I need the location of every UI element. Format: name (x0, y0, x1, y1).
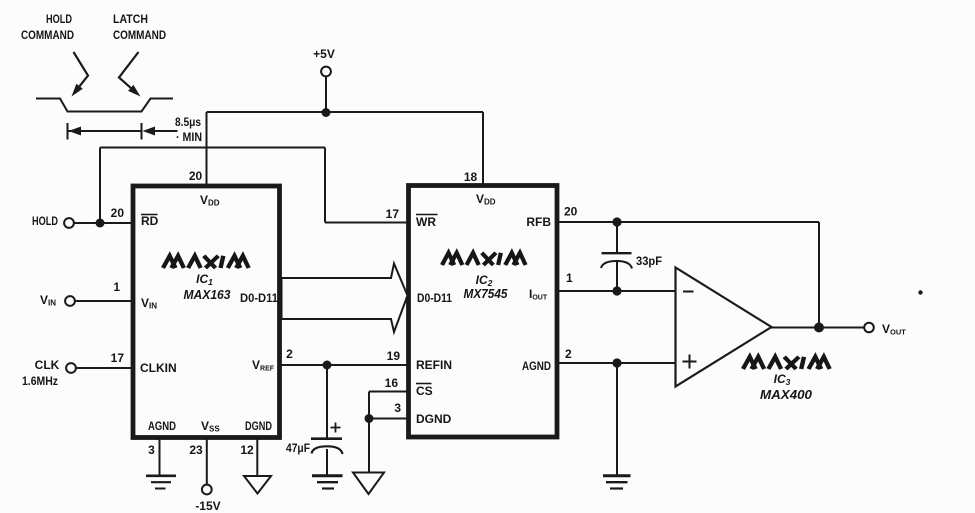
svg-text:3: 3 (148, 443, 155, 457)
svg-text:LATCH: LATCH (113, 12, 148, 26)
wire 33pF top stem (616, 222, 618, 253)
wire IC2 VDD drop (482, 112, 484, 185)
MAXIM logo IC1 (163, 256, 249, 268)
capacitor C1 47uF plus sign (331, 423, 341, 433)
capacitor C2 33pF top plate (602, 252, 632, 254)
svg-text:IC3: IC3 (774, 372, 791, 387)
svg-text:8.5μs: 8.5μs (175, 115, 201, 129)
svg-text:CLK: CLK (35, 358, 60, 372)
svg-text:19: 19 (387, 349, 401, 363)
pin stub IC1 VSS (206, 439, 208, 484)
svg-text:20: 20 (111, 206, 125, 220)
junction VREF node (323, 361, 332, 370)
wire CS-DGND vertical (368, 392, 370, 419)
svg-text:RFB: RFB (526, 215, 551, 229)
svg-text:AGND: AGND (148, 419, 176, 433)
junction HOLD node (96, 219, 105, 228)
terminal HOLD (64, 218, 74, 228)
svg-text:MAX163: MAX163 (184, 288, 231, 302)
junction RFB node (612, 217, 621, 226)
ground 47uF (312, 476, 343, 489)
svg-text:AGND: AGND (522, 359, 551, 373)
capacitor C1 47uF curved plate (312, 446, 343, 454)
svg-text:CLKIN: CLKIN (140, 361, 177, 375)
svg-text:· MIN: · MIN (176, 130, 202, 144)
IC1 MAX163 box (133, 186, 280, 438)
terminal +5V (321, 67, 331, 77)
bus arrow D0-D11 (282, 264, 408, 333)
svg-text:MAX400: MAX400 (760, 388, 812, 402)
junction DGND node (365, 414, 374, 423)
capacitor C2 33pF curved plate (601, 261, 632, 269)
wire 47uF top stem (326, 365, 328, 438)
junction +5V rail (322, 108, 331, 117)
svg-text:REFIN: REFIN (416, 358, 452, 372)
svg-text:2: 2 (565, 347, 572, 361)
ground IC1 DGND triangle (244, 476, 271, 494)
svg-text:1.6MHz: 1.6MHz (22, 374, 58, 388)
wire IC1 VDD drop (206, 112, 208, 185)
wire IOUT to op-amp minus (558, 290, 676, 292)
MAXIM logo IC2 (442, 253, 526, 265)
ground IC1 AGND (146, 476, 176, 489)
svg-text:COMMAND: COMMAND (21, 28, 74, 42)
svg-text:D0-D11: D0-D11 (417, 291, 452, 305)
svg-text:VIN: VIN (40, 293, 56, 308)
stray speck (918, 290, 922, 294)
svg-text:12: 12 (240, 443, 254, 457)
svg-text:HOLD: HOLD (46, 12, 72, 26)
latch command arrow (119, 52, 141, 97)
hold command arrow (72, 52, 89, 97)
junction AGND node (612, 358, 621, 367)
dimension 8.5us (68, 123, 178, 140)
svg-text:D0-D11: D0-D11 (240, 291, 278, 305)
svg-text:CS: CS (416, 384, 433, 398)
svg-text:2: 2 (286, 347, 293, 361)
svg-text:17: 17 (386, 207, 400, 221)
svg-text:23: 23 (189, 443, 203, 457)
pin stub IC1 AGND (159, 439, 161, 476)
terminal VOUT (864, 323, 874, 333)
svg-text:47μF: 47μF (286, 441, 310, 455)
IC2 MX7545 box (409, 186, 558, 438)
wire CS to pin 16 (369, 391, 407, 393)
terminal -15V (202, 485, 212, 495)
svg-text:20: 20 (564, 205, 578, 219)
wire 33pF bottom stem (616, 262, 618, 292)
wire DGND to ground (368, 419, 370, 473)
wire hold rail (100, 147, 325, 149)
svg-text:HOLD: HOLD (32, 214, 58, 228)
wire RFB line (558, 221, 819, 223)
wire WR vertical (324, 148, 326, 223)
svg-text:20: 20 (189, 169, 203, 183)
MAXIM logo IC3 (743, 357, 830, 369)
svg-text:+5V: +5V (313, 47, 335, 61)
svg-text:3: 3 (394, 401, 401, 415)
svg-text:16: 16 (385, 376, 399, 390)
op-amp minus sign (683, 291, 694, 293)
wire 47uF bottom stem (326, 449, 328, 475)
wire feedback vertical (818, 222, 820, 328)
svg-text:1: 1 (113, 280, 120, 294)
wire VREF to REFIN (281, 364, 407, 366)
wire AGND to ground (616, 363, 618, 475)
op-amp U3 triangle (676, 268, 772, 387)
wire +5V stem (325, 77, 327, 114)
terminal VIN (65, 296, 75, 306)
svg-text:COMMAND: COMMAND (113, 28, 166, 42)
svg-text:17: 17 (111, 351, 125, 365)
wire hold vertical (99, 148, 101, 224)
terminal CLK (66, 363, 76, 373)
op-amp plus sign (683, 355, 697, 369)
svg-text:MX7545: MX7545 (464, 287, 509, 301)
svg-text:WR: WR (416, 215, 436, 229)
wire WR horizontal to pin 17 (325, 222, 407, 224)
wire CLK to CLKIN pin 17 (76, 367, 131, 369)
svg-text:DGND: DGND (245, 419, 272, 433)
wire HOLD to RD pin (74, 222, 131, 224)
svg-text:RD: RD (141, 214, 159, 228)
svg-text:1: 1 (566, 271, 573, 285)
ground AGND net (603, 476, 631, 489)
pin stub IC1 DGND (256, 439, 258, 476)
wire top VDD rail (207, 111, 484, 113)
timing waveform (36, 99, 173, 112)
svg-text:-15V: -15V (195, 499, 220, 513)
capacitor C1 47uF plus plate (311, 437, 342, 440)
svg-text:VOUT: VOUT (882, 322, 906, 337)
wire AGND to op-amp plus (558, 362, 676, 364)
ground IC2 DGND triangle (353, 473, 384, 495)
wire DGND to pin 3 (369, 418, 407, 420)
svg-text:DGND: DGND (416, 412, 452, 426)
junction IOUT node (612, 286, 621, 295)
junction output node (814, 323, 824, 333)
svg-text:33pF: 33pF (636, 254, 662, 268)
wire output (771, 327, 864, 329)
wire VIN to pin 1 (75, 300, 131, 302)
svg-text:18: 18 (464, 170, 478, 184)
